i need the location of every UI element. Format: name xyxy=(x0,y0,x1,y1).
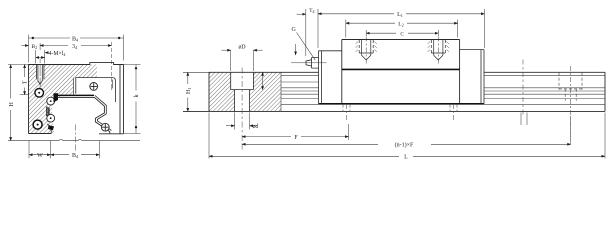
dimension B2 xyxy=(39,43,41,50)
svg-text:34: 34 xyxy=(72,44,78,50)
dark seal wedge right of ball B xyxy=(54,93,59,102)
carriage tapped hole 2 xyxy=(428,37,449,64)
tapped hole 4-MxL walls xyxy=(36,65,44,85)
carriage fixing screw (phillips) upper xyxy=(90,83,98,91)
rail groove lines right segment xyxy=(484,76,605,105)
tapped hole centerline xyxy=(39,59,41,88)
rail groove lines left segment xyxy=(281,76,319,105)
hidden rail hole under carriage 2 xyxy=(450,105,457,112)
slot inner short wall xyxy=(112,80,114,89)
rail sectioned left end hatch xyxy=(209,72,281,111)
block outline top edge with raised step xyxy=(29,63,124,65)
block left edge xyxy=(28,65,30,134)
svg-text:H: H xyxy=(9,101,15,106)
hatch boundary wall left of slot xyxy=(73,78,75,95)
dimension L xyxy=(209,113,605,159)
block right edge double line xyxy=(120,65,124,134)
svg-text:C: C xyxy=(400,32,404,37)
dimension oD xyxy=(231,50,254,71)
rail outline bottom edge xyxy=(183,110,605,112)
dimension k right xyxy=(124,65,141,134)
svg-text:L1: L1 xyxy=(397,12,403,18)
carriage mid section bold line xyxy=(342,68,460,70)
svg-text:W: W xyxy=(37,153,43,159)
svg-text:F: F xyxy=(294,135,298,141)
rail fixing screw (phillips) lower xyxy=(101,123,109,131)
hidden hole centerline in slot xyxy=(110,42,112,90)
dimension 3-4 (hole spacing) xyxy=(40,45,111,47)
dimension T4 top xyxy=(306,9,318,56)
grease nipple xyxy=(306,58,319,69)
ball B xyxy=(47,97,55,105)
dimension H left xyxy=(8,64,29,66)
counterbore depth arrows xyxy=(262,72,264,89)
left end cap xyxy=(319,51,342,104)
section break boundary xyxy=(280,72,282,111)
svg-text:B4: B4 xyxy=(72,36,79,42)
rail right end face xyxy=(604,72,606,111)
ball C xyxy=(47,114,55,122)
ball A xyxy=(35,89,44,98)
rail hole centerline mark mid-right xyxy=(522,60,524,115)
svg-text:(n-1)×F: (n-1)×F xyxy=(395,142,414,149)
dimension L2 xyxy=(346,20,458,38)
dimension T left xyxy=(20,94,29,96)
dimension F xyxy=(348,124,350,140)
carriage bottom bold line xyxy=(319,103,485,105)
svg-text:H1: H1 xyxy=(186,88,192,94)
right end cap xyxy=(460,50,484,104)
dimension H1 left xyxy=(183,71,209,73)
svg-text:ød: ød xyxy=(253,124,259,130)
svg-text:L2: L2 xyxy=(398,22,403,28)
dimension B4 bottom xyxy=(98,141,100,159)
dark wedge right of ball D xyxy=(48,125,54,130)
rail top bold edge in section xyxy=(57,94,94,96)
block bottom edges xyxy=(29,133,124,135)
dimension od bottom xyxy=(235,113,250,130)
rail profile outer line xyxy=(57,97,110,133)
svg-text:øD: øD xyxy=(238,45,245,51)
dimension B4 top xyxy=(29,35,124,63)
dimension C (hole pitch) xyxy=(366,30,438,36)
mounting surface line with break bumps xyxy=(8,139,140,140)
dimension L1 top xyxy=(484,9,486,48)
svg-text:4-M×l4: 4-M×l4 xyxy=(49,51,67,57)
svg-text:B2: B2 xyxy=(31,44,37,50)
hidden counterbored hole right xyxy=(559,73,582,101)
hidden rail hole under carriage 1 xyxy=(343,105,350,112)
dimension W bottom xyxy=(29,141,51,159)
carriage body xyxy=(342,40,460,104)
svg-text:T4: T4 xyxy=(309,8,314,14)
svg-text:k: k xyxy=(134,95,140,98)
dimension (n-1)xF xyxy=(570,116,572,141)
rail outline top edge xyxy=(209,71,605,73)
carriage tapped hole 1 xyxy=(356,37,377,64)
rail left end face xyxy=(208,72,210,111)
svg-text:G: G xyxy=(292,27,297,33)
ball D xyxy=(33,120,42,129)
carriage block hatched body xyxy=(29,65,98,134)
thread callout 4-MxL with leader xyxy=(36,50,45,64)
rail profile inner parallel line xyxy=(95,95,112,130)
svg-text:B4: B4 xyxy=(72,153,79,159)
rail vertical centerline (dash-dot) xyxy=(74,125,76,151)
raceway bold spine between balls B and C xyxy=(47,107,49,117)
counterbore walls and bottom xyxy=(231,72,254,111)
rail hole centerline (dash-dot) xyxy=(241,68,243,150)
svg-text:T: T xyxy=(23,80,29,84)
bottom-left leg inner edge xyxy=(47,124,51,134)
svg-text:L: L xyxy=(404,155,408,161)
slot cavity outline xyxy=(76,78,116,102)
